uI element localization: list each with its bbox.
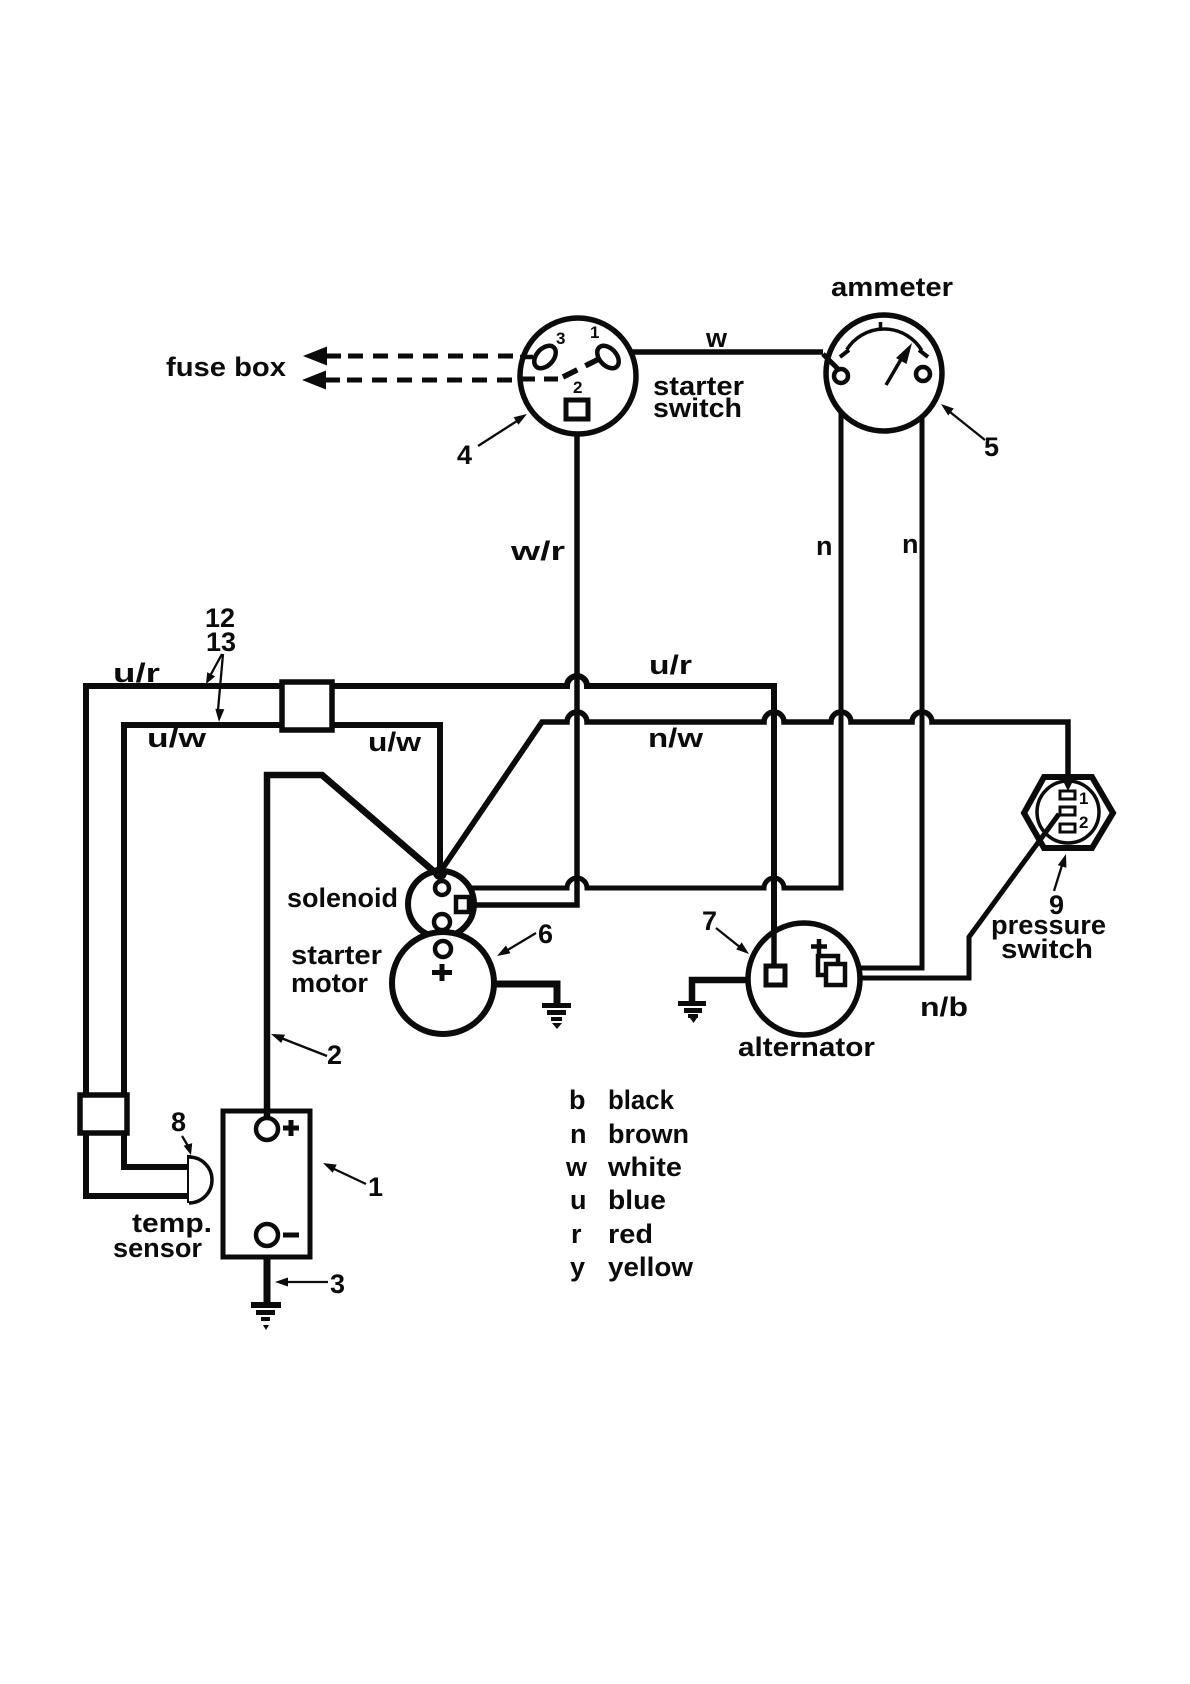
svg-text:black: black bbox=[608, 1085, 675, 1115]
svg-text:sensor: sensor bbox=[113, 1233, 202, 1263]
svg-text:y: y bbox=[570, 1252, 585, 1282]
svg-text:white: white bbox=[607, 1152, 682, 1182]
svg-text:n: n bbox=[902, 529, 919, 559]
svg-text:u: u bbox=[570, 1185, 587, 1215]
svg-text:8: 8 bbox=[171, 1107, 186, 1137]
svg-text:1: 1 bbox=[590, 323, 599, 342]
svg-text:switch: switch bbox=[1001, 934, 1093, 964]
svg-text:1: 1 bbox=[1079, 789, 1088, 808]
svg-text:4: 4 bbox=[457, 440, 472, 470]
svg-text:n: n bbox=[570, 1119, 587, 1149]
svg-text:starter: starter bbox=[291, 940, 383, 970]
svg-text:n/w: n/w bbox=[648, 723, 704, 753]
svg-text:b: b bbox=[569, 1085, 586, 1115]
svg-text:6: 6 bbox=[538, 919, 553, 949]
svg-text:n/b: n/b bbox=[920, 992, 968, 1022]
svg-text:alternator: alternator bbox=[738, 1032, 876, 1062]
svg-text:5: 5 bbox=[984, 432, 999, 462]
svg-text:3: 3 bbox=[556, 329, 565, 348]
svg-text:w: w bbox=[565, 1152, 588, 1182]
svg-text:7: 7 bbox=[702, 906, 717, 936]
svg-text:u/w: u/w bbox=[368, 727, 422, 757]
svg-text:brown: brown bbox=[608, 1119, 689, 1149]
svg-text:2: 2 bbox=[1079, 813, 1088, 832]
svg-text:motor: motor bbox=[291, 968, 368, 998]
svg-text:9: 9 bbox=[1049, 890, 1064, 920]
svg-text:yellow: yellow bbox=[608, 1252, 694, 1282]
svg-text:13: 13 bbox=[206, 627, 236, 657]
svg-text:w: w bbox=[705, 323, 728, 353]
svg-text:blue: blue bbox=[608, 1185, 666, 1215]
svg-text:2: 2 bbox=[573, 378, 582, 397]
svg-text:w/r: w/r bbox=[510, 536, 566, 566]
svg-text:switch: switch bbox=[653, 393, 742, 423]
svg-text:solenoid: solenoid bbox=[287, 883, 398, 913]
svg-text:3: 3 bbox=[330, 1269, 345, 1299]
svg-text:fuse box: fuse box bbox=[166, 352, 286, 382]
svg-text:1: 1 bbox=[368, 1172, 383, 1202]
svg-text:ammeter: ammeter bbox=[831, 272, 954, 302]
svg-text:2: 2 bbox=[327, 1040, 342, 1070]
svg-text:red: red bbox=[608, 1219, 653, 1249]
svg-text:r: r bbox=[571, 1219, 582, 1249]
svg-text:n: n bbox=[816, 531, 833, 561]
svg-text:u/r: u/r bbox=[113, 658, 161, 688]
svg-text:u/w: u/w bbox=[147, 723, 207, 753]
svg-text:u/r: u/r bbox=[649, 650, 693, 680]
